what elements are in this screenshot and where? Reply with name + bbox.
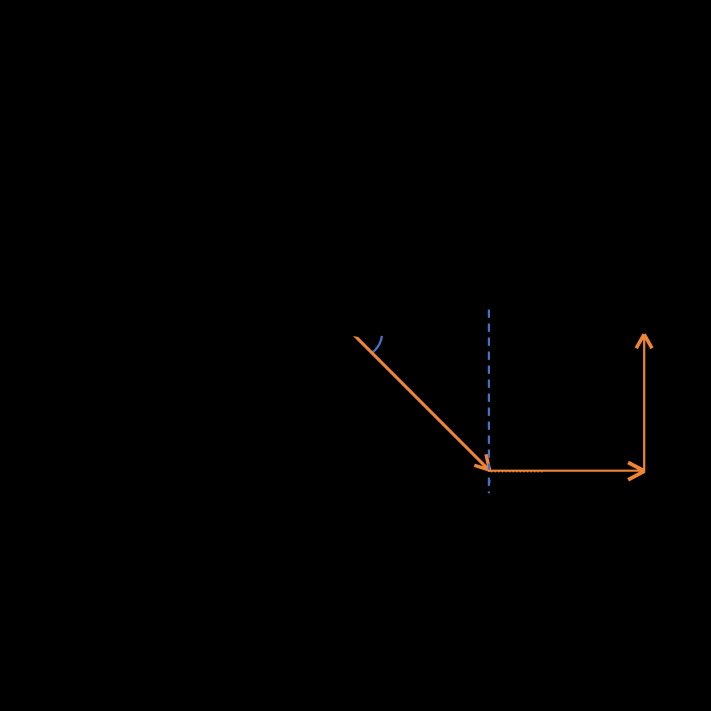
velocity vector arrowhead	[486, 454, 490, 470]
vy arrowhead	[636, 334, 644, 348]
dotted projection segment (orange, under vx near impact point)	[491, 470, 544, 472]
vx arrowhead	[628, 462, 644, 471]
horizontal component vector vx (orange)	[488, 470, 644, 472]
small bulge on lower dash of normal line	[489, 480, 490, 483]
angle arc (blue)	[372, 336, 382, 353]
velocity vector v (orange diagonal, down-right)	[353, 336, 491, 471]
dashed normal line (blue, vertical through impact point)	[488, 309, 490, 493]
vertical component vector vy (orange, pointing up)	[643, 335, 645, 472]
